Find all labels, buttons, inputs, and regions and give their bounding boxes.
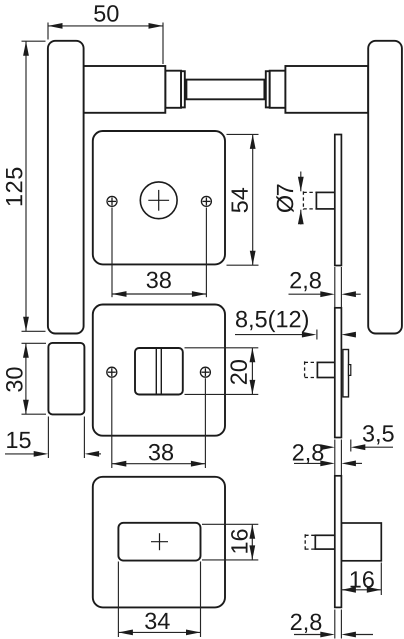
- grip right: [368, 41, 402, 334]
- spindle stub 1 hidden dashes: [303, 191, 316, 210]
- screw top-right: [201, 196, 211, 206]
- dim 30 arrows: [23, 343, 29, 358]
- dim 20 lines: [251, 348, 253, 395]
- side view plate 3: [305, 476, 381, 608]
- blind cover cross: [151, 533, 168, 550]
- dim 20 arrows: [250, 348, 256, 363]
- dim 54 arrows: [250, 134, 256, 149]
- screw mid-left: [107, 367, 117, 377]
- dim 50 arrows: [48, 23, 63, 29]
- label 38: [149, 444, 173, 461]
- dim dia7 arrows: [298, 177, 304, 192]
- label 30: [6, 367, 23, 391]
- side view plate 2: [305, 308, 351, 438]
- dim 54 lines: [252, 134, 254, 265]
- rose square 2: [93, 305, 225, 436]
- neck left: [84, 66, 166, 113]
- label 20: [230, 360, 247, 384]
- dim 16 side arrows: [341, 587, 356, 593]
- collar right: [270, 71, 286, 108]
- dim 3,5 lines: [322, 446, 324, 448]
- ring right: [266, 71, 270, 107]
- label 2,8: [290, 272, 320, 291]
- dim 50 lines: [48, 25, 163, 27]
- dim 16 front arrows: [249, 524, 255, 539]
- label 125: [6, 168, 23, 206]
- spindle bar: [186, 80, 264, 100]
- screw mid-right: [200, 367, 210, 377]
- dim 16 side lines: [341, 589, 381, 591]
- dim 16 front lines: [251, 524, 253, 560]
- dim 2,8 middle arrows: [320, 461, 335, 467]
- dim 3,5 arrows: [351, 444, 366, 450]
- grip left: [48, 41, 84, 334]
- stub 3: [315, 535, 335, 549]
- collar left: [165, 71, 181, 108]
- dim 15 lines: [5, 453, 36, 455]
- dim 8,5(12) arrows: [302, 332, 317, 338]
- cap tab: [349, 365, 351, 376]
- label 16: [351, 571, 374, 588]
- rose square 3: [93, 477, 225, 608]
- dim 2,8 middle lines: [294, 462, 322, 464]
- label 2,8: [293, 444, 323, 463]
- spindle stub 2: [317, 362, 335, 377]
- spindle stub 1: [316, 192, 335, 209]
- neck right: [285, 66, 368, 113]
- handle hole cross: [148, 190, 169, 211]
- label 38: [147, 272, 171, 289]
- thumbturn knob side view: [48, 343, 84, 415]
- rose square 1: [93, 131, 225, 264]
- cylinder block behind plate 3: [341, 523, 381, 561]
- dim 15 arrows: [34, 451, 49, 457]
- plate 1 body: [335, 135, 342, 266]
- dim 8,5(12) lines: [235, 334, 305, 336]
- screw top-left: [107, 196, 117, 206]
- dim 125 lines: [25, 41, 27, 331]
- plate 3 body: [335, 476, 342, 608]
- label 15: [7, 432, 30, 448]
- dim 2,8 top lines: [289, 293, 323, 295]
- label 34: [145, 613, 170, 630]
- thumbturn front view: [135, 348, 183, 395]
- ring left: [181, 71, 185, 107]
- label 2,8: [291, 614, 321, 633]
- blind cover plate front view: [118, 523, 200, 561]
- dim 34 arrows: [118, 630, 132, 636]
- cap piece behind plate 2: [343, 350, 349, 397]
- dim 2,8 top arrows: [320, 291, 335, 297]
- label 16: [231, 529, 248, 552]
- dim 38 top arrows: [112, 291, 127, 297]
- dim 38 middle lines: [111, 378, 113, 468]
- stub 3 hidden dashes: [305, 534, 315, 550]
- thumbturn grip lines: [156, 348, 161, 394]
- plate 2 body: [335, 308, 342, 438]
- label 50: [94, 5, 118, 22]
- dim 34 lines: [117, 562, 119, 638]
- label 3,5: [363, 425, 394, 444]
- dim dia7 lines: [300, 172, 302, 192]
- dim 2,8 bottom arrows: [320, 632, 335, 638]
- dim 125 arrows: [23, 41, 29, 56]
- dim 2,8 bottom lines: [294, 634, 322, 636]
- label 8,5(12): [236, 310, 308, 332]
- side view plate 1: [303, 135, 341, 266]
- label Ø7: [276, 184, 293, 212]
- dim 38 top lines: [111, 208, 113, 298]
- handle hole circle: [140, 182, 177, 219]
- label 54: [232, 188, 248, 213]
- dim 38 middle arrows: [112, 461, 127, 467]
- dim 30 lines: [25, 343, 27, 414]
- spindle stub 2 hidden dashes: [305, 361, 318, 378]
